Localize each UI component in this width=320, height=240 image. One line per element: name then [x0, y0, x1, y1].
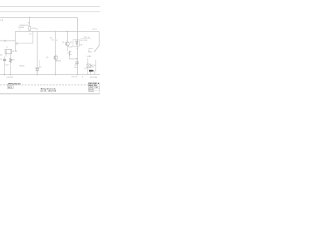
node 120VAC dark label: [89, 70, 93, 72]
relay K2 contact: [66, 46, 68, 51]
svg-text:APPROVED BY: APPROVED BY: [8, 83, 22, 86]
wire top rail: [0, 16, 77, 18]
wire from R1 to mid rail: [29, 30, 31, 31]
svg-text:NO COM: NO COM: [80, 40, 88, 42]
transistor Q2: [65, 42, 69, 46]
capacitor C1: [4, 57, 6, 60]
wire lamp to rail: [87, 58, 89, 64]
svg-text:D2: D2: [70, 42, 72, 44]
wire branch Q1 at x=55: [54, 31, 56, 75]
LED D2: [76, 41, 78, 43]
wire lower-left feed: [0, 40, 15, 42]
svg-text:C1: C1: [0, 59, 2, 61]
bottom border: [0, 93, 100, 95]
wire 120V to rail: [90, 72, 92, 75]
lamp LP1: [87, 64, 90, 68]
stamp box: [8, 86, 14, 89]
wire sw to rail: [95, 60, 96, 75]
title table: [88, 82, 100, 93]
svg-text:D1: D1: [36, 29, 38, 31]
wire branch x=32.9: [15, 31, 33, 43]
wire T1 pin A: [5, 54, 7, 57]
transformer T1 box: [5, 49, 12, 53]
wire right main drop: [76, 17, 78, 74]
svg-text:DWG 2041-A: DWG 2041-A: [88, 82, 99, 85]
svg-text:R5: R5: [50, 38, 52, 40]
svg-text:LP1: LP1: [84, 68, 87, 70]
optocoupler U1 box: [73, 40, 79, 47]
wire top rule 2: [0, 11, 100, 13]
svg-text:0.1uF: 0.1uF: [4, 64, 8, 66]
svg-text:2N3904: 2N3904: [55, 60, 61, 62]
transistor Q1: [54, 56, 58, 60]
wire mid rail: [15, 30, 99, 32]
svg-text:FUSED: FUSED: [18, 27, 25, 29]
svg-text:SW1: SW1: [88, 51, 92, 53]
svg-text:BC547: BC547: [68, 47, 73, 49]
svg-text:B: B: [56, 40, 57, 42]
svg-text:RET 0V: RET 0V: [72, 76, 78, 78]
wire T1 pin B: [10, 54, 12, 57]
wire to Q2: [66, 31, 68, 41]
svg-text:rev 1.2 - sheet 1/2: rev 1.2 - sheet 1/2: [40, 89, 56, 92]
wire top rule 1: [0, 6, 100, 8]
node junction tick: [4, 40, 6, 42]
svg-text:C3: C3: [74, 65, 76, 67]
wire switch pivot: [89, 48, 93, 50]
svg-text:Q1: Q1: [46, 57, 48, 59]
node junction on top rail: [29, 17, 30, 18]
svg-text:LOAD: LOAD: [87, 55, 92, 58]
capacitor C3: [75, 61, 79, 63]
switch SW1 lever: [94, 45, 99, 52]
svg-text:COM 0V: COM 0V: [7, 77, 14, 79]
wire far right drop: [98, 31, 100, 45]
svg-text:2024-03: 2024-03: [88, 91, 94, 93]
dashed separator: [0, 84, 93, 86]
svg-text:R2: R2: [13, 59, 15, 61]
wire bottom rail: [0, 74, 100, 76]
svg-text:K1 5V: K1 5V: [12, 51, 18, 53]
inductor L2: [10, 57, 12, 59]
wire K2 to junction: [70, 56, 78, 59]
svg-text:GND A: GND A: [19, 64, 25, 67]
svg-text:10k: 10k: [51, 39, 54, 41]
svg-text:10u: 10u: [74, 67, 77, 69]
svg-text:Z5: Z5: [40, 67, 42, 69]
svg-text:120V: 120V: [89, 71, 94, 73]
svg-text:T1: T1: [6, 47, 8, 49]
resistor R1: [29, 27, 31, 31]
svg-text:k2: k2: [76, 48, 78, 50]
wire branch D at x=37: [36, 31, 38, 67]
diode D1: [35, 67, 39, 69]
wire vertical from top rail to R1: [29, 17, 31, 26]
wire D1 to bottom rail: [36, 71, 38, 75]
svg-text:OUT 1: OUT 1: [92, 29, 97, 31]
node junction mid rail right: [67, 31, 68, 32]
wire left drop from mid rail: [14, 31, 16, 51]
svg-text:Q2: Q2: [62, 42, 64, 44]
